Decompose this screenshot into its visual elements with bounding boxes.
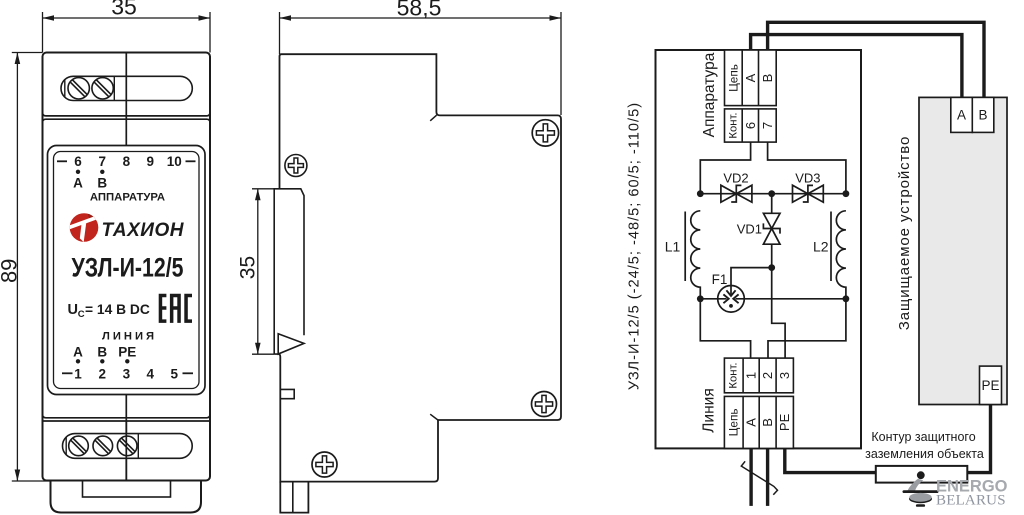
terminal block Линия: Цепь row [724,396,793,448]
svg-text:А: А [744,418,759,427]
svg-text:9: 9 [147,154,155,169]
side bottom tab [280,482,308,513]
svg-text:7: 7 [760,122,775,129]
svg-text:АППАРАТУРА: АППАРАТУРА [90,191,165,203]
Линия table texts [727,362,793,436]
svg-text:L2: L2 [813,239,829,255]
svg-text:РЕ: РЕ [118,345,136,360]
line wire B down [766,448,769,506]
label letters A B top [73,176,107,191]
svg-text:3: 3 [777,372,792,379]
node dot left [697,190,704,197]
svg-text:BELARUS: BELARUS [936,492,1006,508]
label pin dots bottom [76,359,80,363]
svg-text:5: 5 [171,367,179,382]
front section line upper (bottom of top terminal block) [43,113,211,116]
arrester F1 top electrode [731,268,772,286]
thick wire PE from УЗЛ to ground bus [785,448,876,472]
inductor L1 [691,211,701,299]
svg-text:Защищаемое устройство: Защищаемое устройство [896,136,913,331]
terminal block Аппаратура: Конт. row [725,109,777,142]
inductor L2 [836,211,846,299]
screw front bottom 2 [93,436,113,456]
front top terminal slot [61,76,192,100]
svg-text:В: В [97,176,107,191]
svg-text:Цепь: Цепь [727,64,741,92]
node dot F1 right [843,295,850,302]
svg-text:В: В [760,418,775,427]
screw front top 1 [68,78,89,99]
label text Uc = 14 B DC [68,302,150,320]
svg-text:VD2: VD2 [723,170,748,185]
svg-text:10: 10 [167,154,182,169]
svg-text:4: 4 [147,367,155,382]
svg-text:Аппаратура: Аппаратура [701,52,718,137]
ground bus [876,466,968,483]
arrester F1 [718,286,745,313]
svg-text:L1: L1 [665,239,681,255]
dimension 35 (side plate) [237,189,275,354]
node dot F1 left [697,295,704,302]
svg-text:Цепь: Цепь [727,408,741,436]
wire PE inner (VD1 node to terminal 3) [772,268,785,359]
front section line lower (bottom of mid section) [43,414,211,417]
svg-text:В: В [760,74,775,83]
svg-text:2: 2 [760,372,775,379]
Аппаратура table texts [727,64,776,139]
thick wire A (to protected device) [751,35,962,98]
svg-text:VD1: VD1 [737,222,762,237]
thick wire B (to protected device) [768,22,984,97]
protected device terminal B [972,97,994,132]
wire from terminal 6 to L1 [700,142,750,194]
cable break slash [741,461,777,495]
front bottom DIN tab [51,481,202,513]
protected device box [919,97,1007,404]
svg-text:заземления объекта: заземления объекта [865,447,984,461]
svg-text:C: C [78,309,85,320]
svg-text:ЛИНИЯ: ЛИНИЯ [102,330,157,342]
thick wire PE from device to ground bus [967,405,990,473]
svg-text:= 14 В DC: = 14 В DC [85,302,150,317]
wire right branch to terminal 2 [768,299,846,358]
side step tick bottom [430,414,438,420]
front center parting line [125,53,127,481]
side step tick top [430,115,436,121]
svg-text:А: А [73,176,83,191]
wire from terminal 7 to L2 [768,142,846,194]
terminal block Линия: Конт. row [724,358,793,393]
node dot middle [768,190,775,197]
svg-text:U: U [68,302,78,318]
screw side bottom-right [532,392,557,417]
line wire A down [749,448,752,506]
front bottom terminal slot [63,434,193,459]
svg-text:35: 35 [111,0,137,20]
front section line upper 2 (top of mid section) [43,119,211,122]
side body outline [278,54,561,481]
diode VD2 [721,185,752,202]
label terminal numbers 6-10 [74,154,182,169]
screw side top-left [285,155,307,177]
front body outline [43,53,211,481]
svg-text:1: 1 [744,372,759,379]
svg-text:1: 1 [74,367,82,382]
EAC mark [159,294,192,323]
svg-text:Конт.: Конт. [728,112,740,138]
svg-text:В: В [97,345,107,360]
dimension 58,5 (side width) [280,0,562,115]
front section line lower 2 (top of bottom terminal block) [43,420,211,422]
svg-text:Конт.: Конт. [728,362,740,388]
diode row wire [700,193,846,195]
node dot VD1/F1 [768,264,775,271]
node dot right [843,190,850,197]
svg-text:F1: F1 [712,272,728,287]
svg-text:6: 6 [74,154,82,169]
wire left branch to terminal 1 [700,299,750,358]
device box УЗЛ [656,50,862,448]
screw side bottom-left [312,452,337,477]
dimension 35 (front width) [43,0,211,53]
svg-text:Контур защитного: Контур защитного [871,430,975,444]
svg-text:ТАХИОН: ТАХИОН [102,220,185,241]
screw side top-right [532,120,558,146]
screw front top 2 [92,78,113,99]
svg-text:РЕ: РЕ [981,378,999,393]
label pin dots top [76,170,80,174]
svg-text:УЗЛ-И-12/5: УЗЛ-И-12/5 [72,253,184,283]
label Контур защитного заземления объекта [865,430,984,461]
side DIN clip triangle [278,334,304,354]
svg-text:А: А [743,73,758,82]
label letters A B PE bottom [73,345,136,360]
diode VD1 (vertical) [771,194,773,214]
protected device terminal A [951,97,973,132]
watermark emblem [903,471,939,507]
svg-text:7: 7 [99,154,107,169]
svg-text:УЗЛ-И-12/5 (-24/5; -48/5; 60/5: УЗЛ-И-12/5 (-24/5; -48/5; 60/5; -110/5) [627,102,643,390]
svg-text:2: 2 [99,367,107,382]
svg-text:Линия: Линия [701,388,718,432]
diode VD3 [793,185,824,202]
side small notch [280,389,294,398]
dimension 89 (front height) [0,53,50,482]
svg-text:6: 6 [743,122,758,129]
svg-text:В: В [978,108,987,123]
svg-text:8: 8 [123,154,131,169]
front label plate [48,146,206,395]
svg-text:РЕ: РЕ [777,413,792,431]
side DIN plate [274,189,304,354]
terminal block Аппаратура: Цепь row [725,50,777,106]
svg-text:VD3: VD3 [795,170,820,185]
protected device terminal PE [980,366,1002,404]
arrester F1 row wires [700,298,726,300]
svg-text:А: А [73,345,83,360]
svg-text:35: 35 [237,256,260,279]
screw front bottom 1 [69,436,89,456]
screw front bottom 3 [117,436,137,456]
svg-text:3: 3 [123,367,131,382]
Tachion logo [69,211,185,242]
svg-text:А: А [957,108,966,123]
svg-text:89: 89 [0,259,21,283]
label terminal numbers 1-5 [74,367,178,382]
